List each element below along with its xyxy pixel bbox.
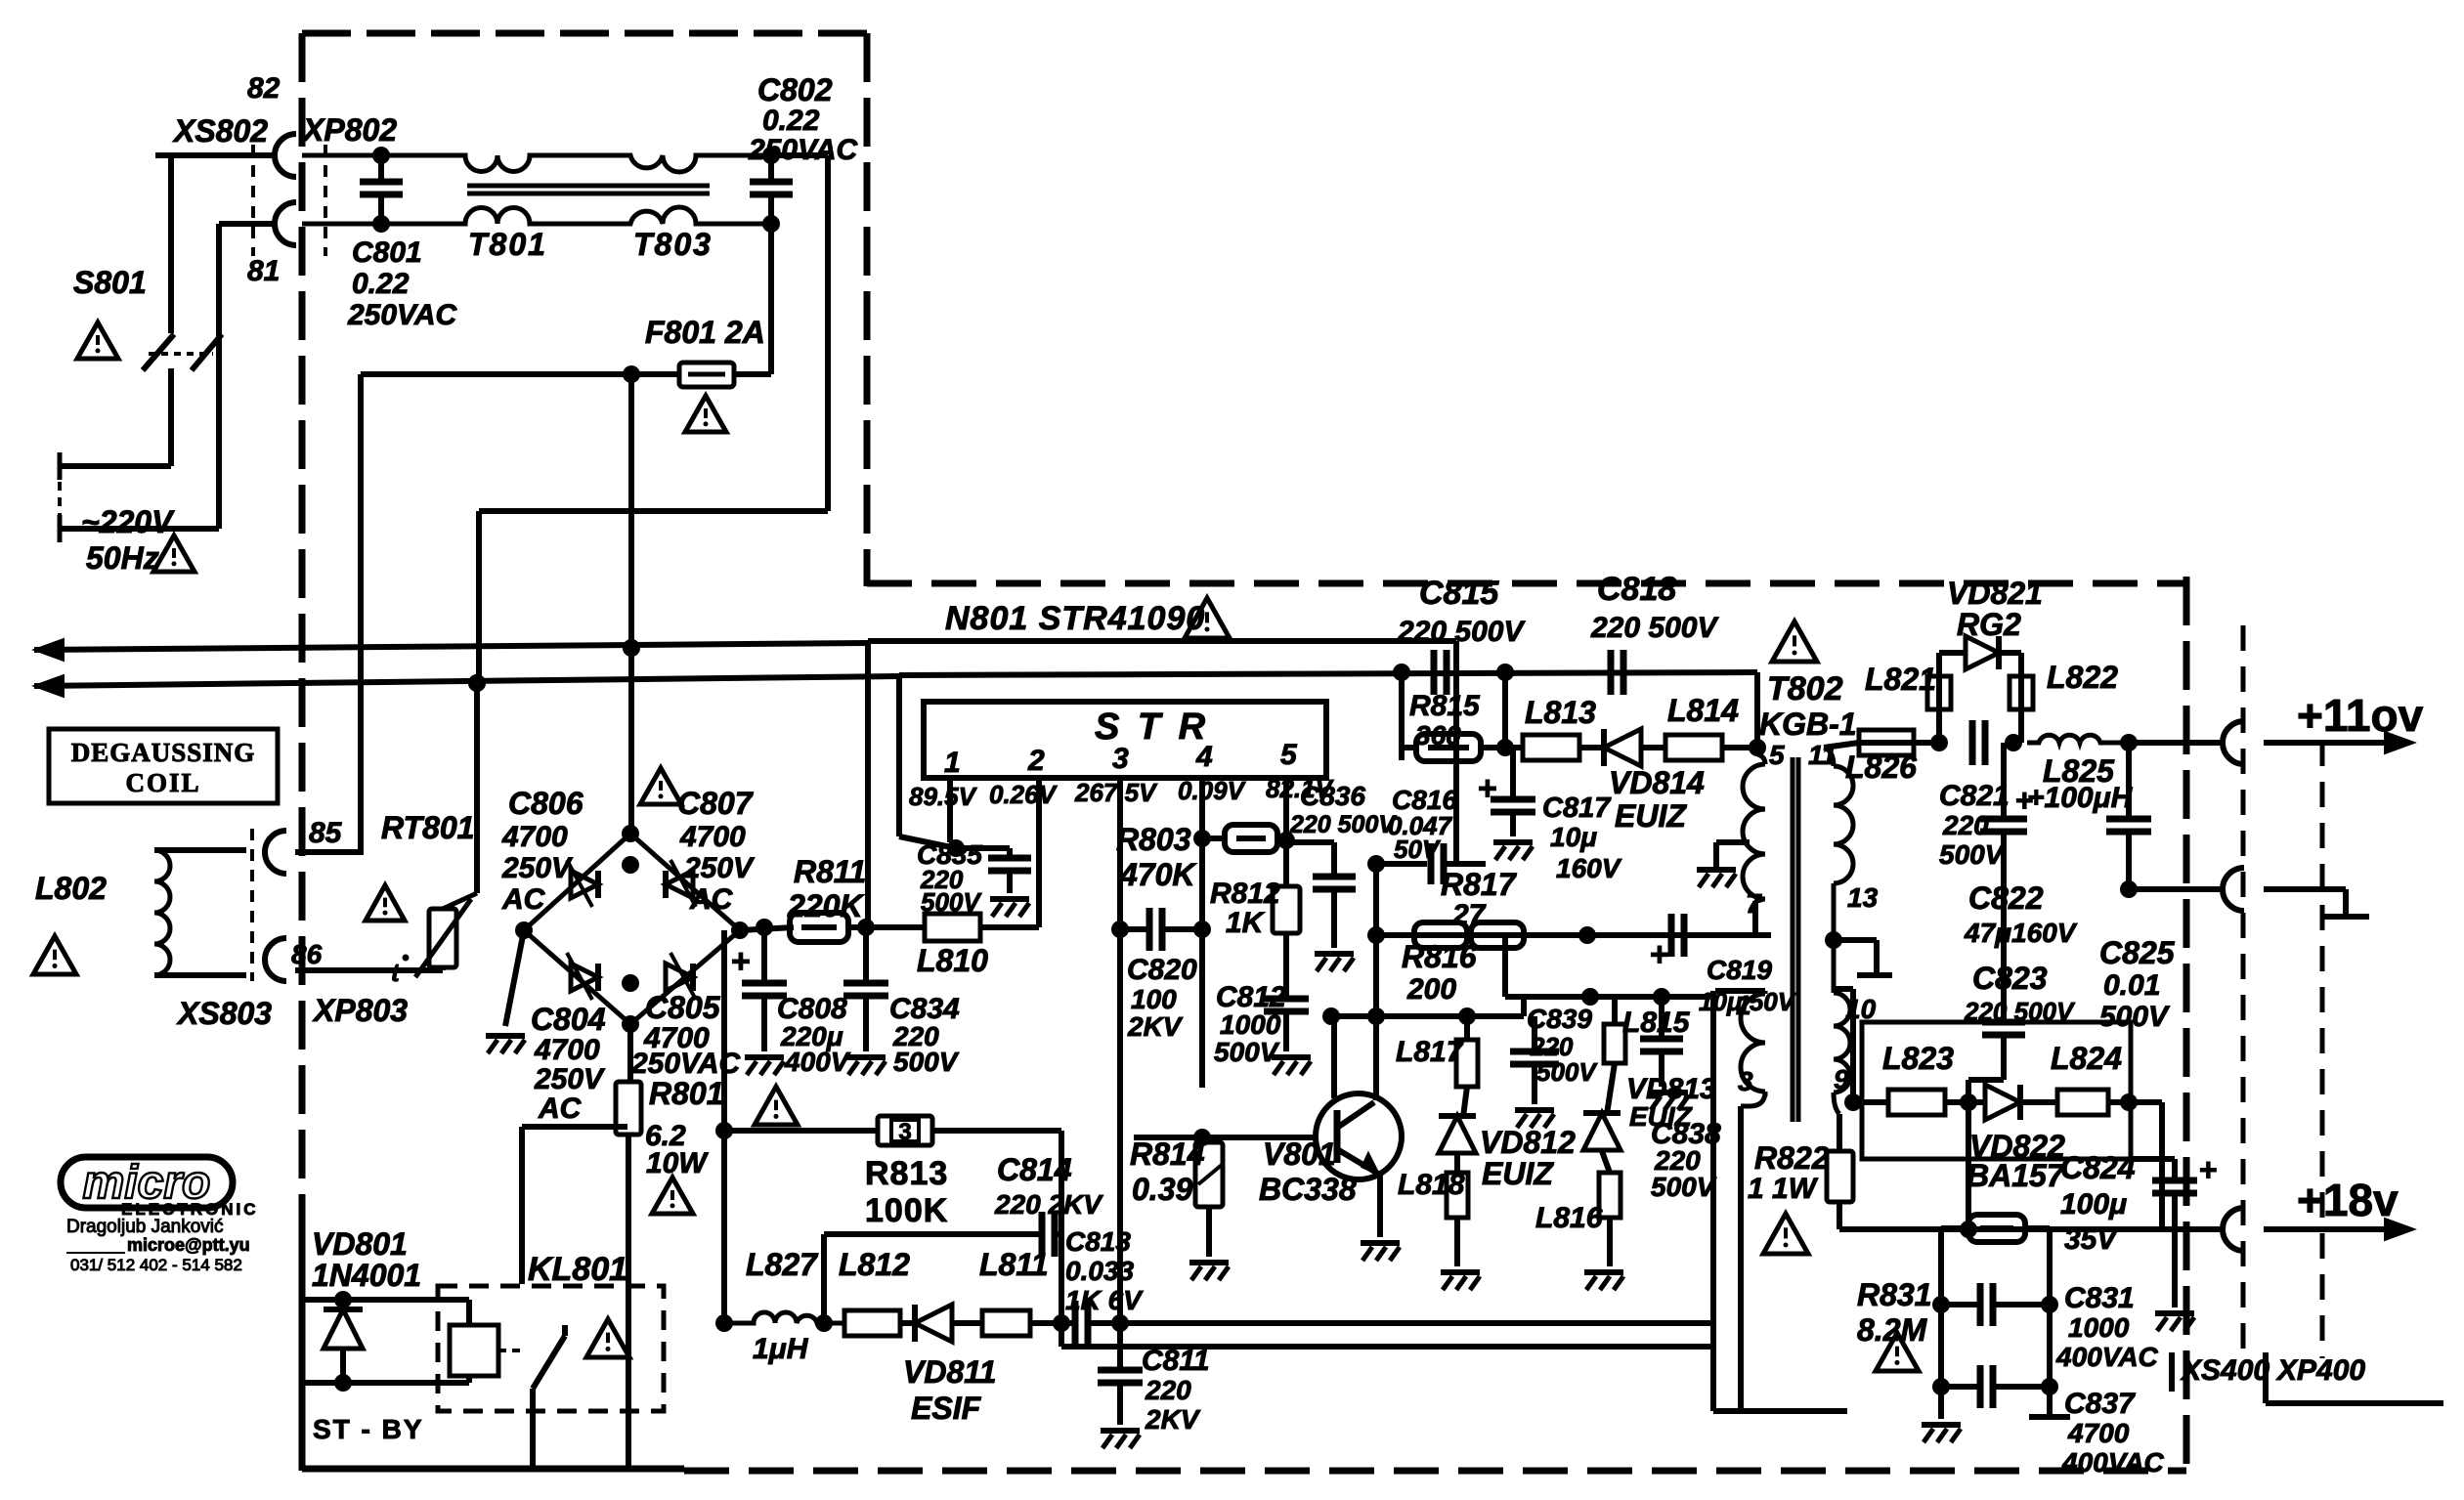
- svg-text:031/ 512 402 - 514 582: 031/ 512 402 - 514 582: [70, 1256, 242, 1274]
- svg-text:3: 3: [1112, 743, 1129, 775]
- svg-text:1N4001: 1N4001: [312, 1258, 421, 1293]
- svg-text:T802: T802: [1767, 670, 1843, 707]
- svg-text:R831: R831: [1857, 1277, 1932, 1312]
- svg-text:EUIZ: EUIZ: [1482, 1156, 1554, 1191]
- svg-text:RT801: RT801: [381, 810, 474, 845]
- svg-text:R811: R811: [794, 854, 866, 889]
- svg-text:DEGAUSSING: DEGAUSSING: [71, 738, 256, 767]
- svg-text:89.5V: 89.5V: [909, 782, 978, 811]
- svg-text:0.39: 0.39: [1132, 1172, 1192, 1207]
- svg-text:AC: AC: [501, 883, 546, 916]
- svg-text:+: +: [2199, 1152, 2218, 1187]
- svg-text:100μ: 100μ: [2060, 1188, 2127, 1221]
- svg-text:R822: R822: [1754, 1140, 1830, 1176]
- svg-text:200: 200: [1406, 973, 1456, 1006]
- svg-text:10: 10: [1845, 994, 1877, 1024]
- svg-text:85: 85: [309, 817, 343, 849]
- svg-text:C819: C819: [1707, 955, 1772, 985]
- svg-text:XP400: XP400: [2275, 1354, 2365, 1387]
- svg-text:V801: V801: [1263, 1136, 1336, 1172]
- svg-text:82: 82: [247, 72, 281, 105]
- svg-text:35V: 35V: [2064, 1223, 2119, 1256]
- svg-text:C837: C837: [2064, 1388, 2136, 1420]
- svg-text:L811: L811: [979, 1247, 1049, 1282]
- svg-text:+18v: +18v: [2297, 1175, 2399, 1225]
- svg-text:1000: 1000: [1220, 1009, 1281, 1040]
- svg-text:10W: 10W: [646, 1147, 709, 1179]
- svg-text:500V: 500V: [1536, 1057, 1598, 1087]
- svg-text:C820: C820: [1127, 954, 1197, 986]
- svg-text:360: 360: [1415, 720, 1461, 750]
- svg-text:220K: 220K: [787, 888, 865, 923]
- svg-text:L818: L818: [1398, 1169, 1465, 1201]
- svg-text:XS803: XS803: [176, 996, 272, 1031]
- svg-text:COIL: COIL: [125, 768, 200, 797]
- svg-text:1K 6V: 1K 6V: [1065, 1285, 1144, 1315]
- svg-text:100K: 100K: [865, 1192, 948, 1229]
- svg-text:L823: L823: [1882, 1041, 1954, 1076]
- svg-text:C817: C817: [1542, 793, 1612, 824]
- svg-text:C814: C814: [997, 1152, 1072, 1187]
- svg-text:L812: L812: [839, 1247, 910, 1282]
- svg-text:+11ov: +11ov: [2297, 690, 2424, 741]
- svg-text:2: 2: [1027, 745, 1045, 777]
- svg-text:C804: C804: [531, 1002, 606, 1037]
- svg-text:13: 13: [1847, 882, 1879, 913]
- svg-text:C818: C818: [1597, 571, 1676, 608]
- svg-text:L813: L813: [1525, 695, 1596, 730]
- svg-text:0.22: 0.22: [352, 268, 410, 300]
- svg-text:AC: AC: [538, 1093, 583, 1125]
- svg-text:470K: 470K: [1119, 857, 1197, 892]
- svg-text:220 500V: 220 500V: [1590, 612, 1719, 644]
- svg-text:0.09V: 0.09V: [1178, 776, 1247, 805]
- svg-text:R801: R801: [649, 1076, 724, 1111]
- svg-text:500V: 500V: [2099, 1001, 2171, 1033]
- svg-text:L824: L824: [2051, 1041, 2122, 1076]
- svg-text:3: 3: [1738, 1066, 1753, 1096]
- svg-text:50Hz: 50Hz: [86, 540, 159, 576]
- svg-text:L810: L810: [917, 943, 988, 978]
- svg-text:L802: L802: [35, 871, 107, 906]
- svg-text:0.033: 0.033: [1065, 1256, 1134, 1286]
- svg-text:C801: C801: [352, 236, 422, 269]
- svg-text:R813: R813: [865, 1155, 948, 1192]
- svg-text:250V: 250V: [501, 852, 574, 884]
- svg-text:T803: T803: [633, 227, 713, 262]
- svg-text:400VAC: 400VAC: [2061, 1447, 2165, 1478]
- svg-text:KGB-1: KGB-1: [1759, 707, 1857, 742]
- svg-text:F801 2A: F801 2A: [645, 315, 765, 350]
- svg-text:47μ160V: 47μ160V: [1964, 918, 2078, 948]
- svg-text:VD821: VD821: [1947, 576, 2043, 611]
- svg-text:220: 220: [1942, 810, 1989, 840]
- svg-text:+100μH: +100μH: [2027, 782, 2134, 814]
- svg-text:1: 1: [1736, 990, 1751, 1020]
- svg-text:4700: 4700: [679, 821, 746, 853]
- svg-text:5: 5: [1769, 740, 1785, 770]
- svg-text:Dragoljub Janković: Dragoljub Janković: [66, 1217, 224, 1237]
- svg-text:267.5V: 267.5V: [1074, 778, 1158, 807]
- svg-text:2KV: 2KV: [1127, 1011, 1184, 1042]
- svg-text:VD812: VD812: [1480, 1125, 1576, 1160]
- svg-text:XP803: XP803: [312, 993, 408, 1028]
- svg-text:500V: 500V: [1651, 1172, 1717, 1202]
- svg-text:C807: C807: [677, 786, 755, 821]
- svg-text:250VAC: 250VAC: [347, 299, 458, 331]
- svg-text:500V: 500V: [921, 887, 982, 917]
- svg-text:27: 27: [1451, 899, 1487, 931]
- svg-text:C839: C839: [1527, 1004, 1592, 1034]
- svg-text:VD811: VD811: [903, 1354, 996, 1390]
- svg-text:C815: C815: [1419, 575, 1499, 612]
- svg-text:C813: C813: [1065, 1226, 1131, 1257]
- svg-text:L816: L816: [1535, 1202, 1603, 1234]
- svg-text:500V: 500V: [1214, 1037, 1280, 1067]
- svg-text:+: +: [1650, 936, 1669, 973]
- svg-text:1000: 1000: [2068, 1312, 2130, 1343]
- svg-text:C831: C831: [2064, 1282, 2135, 1314]
- svg-text:L815: L815: [1622, 1007, 1691, 1039]
- svg-text:L827: L827: [746, 1247, 819, 1282]
- svg-text:+: +: [731, 943, 751, 980]
- svg-text:C824: C824: [2060, 1150, 2136, 1185]
- svg-text:500V: 500V: [893, 1047, 960, 1077]
- svg-text:XS802: XS802: [172, 113, 268, 149]
- svg-text:4700: 4700: [501, 821, 568, 853]
- svg-text:100: 100: [1131, 984, 1177, 1014]
- svg-text:ESIF: ESIF: [911, 1391, 982, 1426]
- svg-text:250V: 250V: [683, 852, 756, 884]
- svg-text:S T R: S T R: [1095, 707, 1209, 748]
- svg-text:BA157: BA157: [1967, 1158, 2066, 1193]
- svg-text:C823: C823: [1972, 961, 2048, 996]
- svg-text:R817: R817: [1441, 867, 1518, 902]
- svg-text:R816: R816: [1402, 939, 1477, 974]
- svg-text:S801: S801: [73, 265, 147, 300]
- svg-text:C821: C821: [1939, 780, 2010, 812]
- svg-text:ST - BY: ST - BY: [313, 1414, 424, 1444]
- svg-text:400V: 400V: [784, 1047, 851, 1077]
- svg-text:EUIZ: EUIZ: [1615, 798, 1687, 834]
- svg-text:86: 86: [291, 939, 323, 969]
- svg-text:L817: L817: [1396, 1036, 1464, 1068]
- svg-text:11: 11: [1808, 740, 1837, 770]
- svg-text:0.01: 0.01: [2103, 969, 2160, 1002]
- svg-text:220: 220: [1145, 1375, 1191, 1405]
- svg-text:VD801: VD801: [312, 1226, 408, 1262]
- svg-text:220 500V: 220 500V: [1289, 811, 1397, 838]
- svg-text:L826: L826: [1845, 750, 1917, 785]
- svg-text:+: +: [1478, 770, 1497, 807]
- svg-text:L814: L814: [1667, 693, 1739, 728]
- svg-text:10μ: 10μ: [1550, 822, 1597, 852]
- svg-text:microe@ptt.yu: microe@ptt.yu: [127, 1235, 250, 1255]
- svg-text:~220V: ~220V: [81, 504, 175, 539]
- svg-text:C825: C825: [2099, 935, 2176, 970]
- svg-text:C802: C802: [757, 72, 833, 107]
- svg-text:R814: R814: [1130, 1136, 1205, 1172]
- svg-text:5: 5: [1280, 739, 1298, 771]
- svg-text:RG2: RG2: [1957, 607, 2021, 642]
- svg-text:50V: 50V: [1394, 835, 1442, 864]
- svg-text:250VAC: 250VAC: [748, 134, 859, 166]
- svg-text:KL801: KL801: [528, 1251, 627, 1288]
- svg-text:81: 81: [247, 255, 280, 287]
- svg-text:L822: L822: [2047, 660, 2118, 695]
- svg-text:220 500V: 220 500V: [1397, 616, 1526, 648]
- svg-text:250V: 250V: [534, 1063, 606, 1095]
- svg-text:VD814: VD814: [1609, 765, 1705, 800]
- svg-text:AC: AC: [689, 883, 734, 916]
- svg-text:N801 STR41090: N801 STR41090: [945, 600, 1205, 637]
- svg-text:T801: T801: [468, 227, 547, 262]
- svg-text:9: 9: [1834, 1064, 1849, 1094]
- svg-text:4700: 4700: [534, 1034, 600, 1066]
- svg-text:2KV: 2KV: [1145, 1404, 1201, 1435]
- svg-text:BC338: BC338: [1259, 1172, 1357, 1207]
- svg-text:+: +: [2015, 783, 2034, 818]
- svg-text:400VAC: 400VAC: [2055, 1342, 2159, 1372]
- svg-text:R812: R812: [1210, 878, 1280, 910]
- svg-text:7: 7: [1746, 888, 1762, 919]
- svg-text:4: 4: [1195, 741, 1213, 773]
- svg-text:t: t: [391, 958, 401, 987]
- svg-text:1K: 1K: [1226, 907, 1266, 939]
- svg-text:C805: C805: [645, 990, 721, 1025]
- svg-text:3: 3: [898, 1119, 911, 1145]
- svg-text:C806: C806: [508, 786, 584, 821]
- svg-text:4700: 4700: [2067, 1418, 2130, 1448]
- svg-text:160V: 160V: [1556, 853, 1622, 883]
- svg-text:C836: C836: [1300, 781, 1365, 811]
- svg-text:XP802: XP802: [301, 112, 397, 148]
- svg-text:1: 1: [944, 747, 961, 779]
- svg-text:500V: 500V: [1939, 839, 2006, 870]
- svg-text:L821: L821: [1865, 662, 1936, 697]
- svg-text:R803: R803: [1116, 822, 1191, 857]
- svg-text:XS400: XS400: [2180, 1354, 2269, 1387]
- svg-text:C822: C822: [1968, 880, 2044, 916]
- svg-text:1 1W: 1 1W: [1748, 1173, 1819, 1205]
- svg-text:0.26V: 0.26V: [989, 780, 1059, 809]
- svg-text:220 2KV: 220 2KV: [994, 1189, 1103, 1220]
- svg-text:1μH: 1μH: [753, 1333, 809, 1365]
- svg-text:0.22: 0.22: [762, 105, 820, 137]
